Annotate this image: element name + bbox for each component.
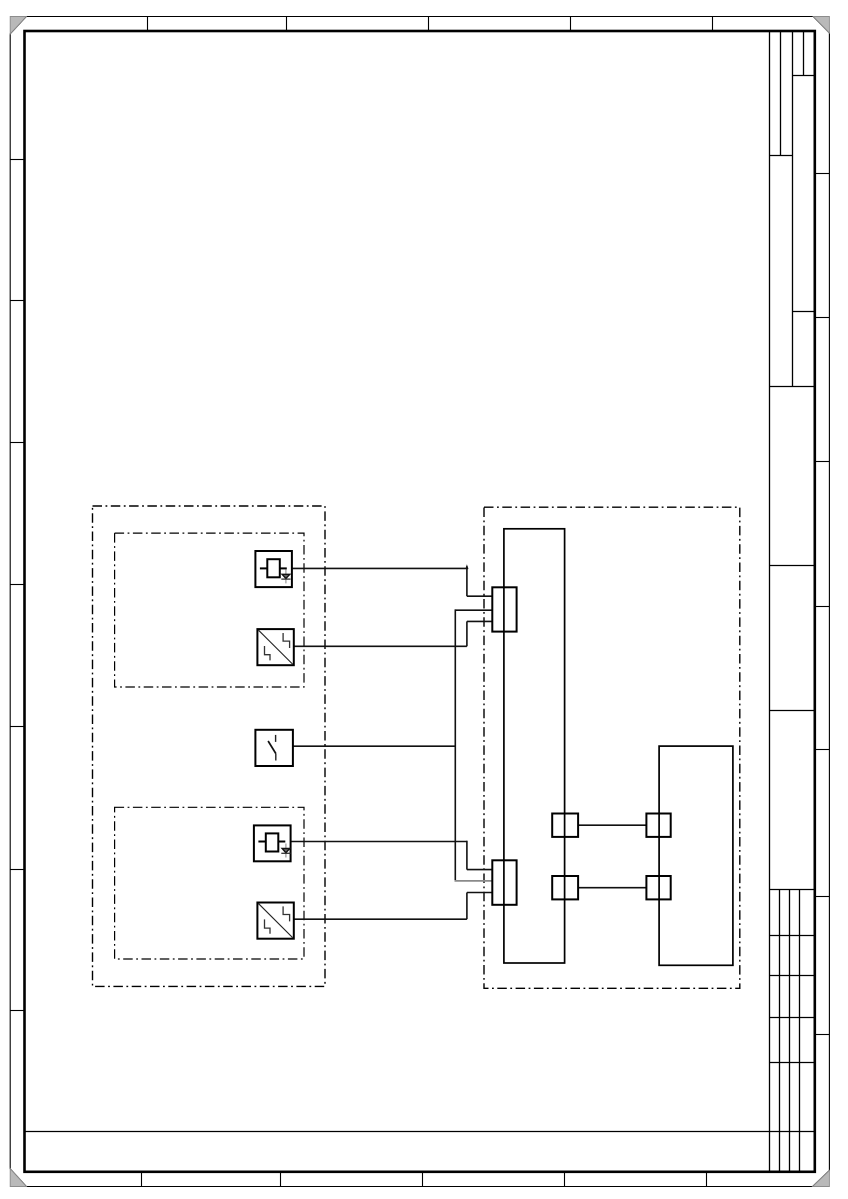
connector K1 right half: [646, 814, 670, 837]
corner fold triangle bottom-left: [10, 1169, 26, 1187]
enclosure boundary (field devices, dash-dot): [93, 506, 326, 986]
I/O module A2: [659, 746, 733, 965]
sensor group 1 boundary (dash-dot): [115, 533, 304, 687]
wire direction nub: [465, 564, 468, 569]
wire comp5 to terminal X2: [294, 893, 493, 920]
margin tick marks bottom edge: [142, 1172, 707, 1187]
margin tick marks left edge: [10, 160, 24, 1011]
margin tick marks top edge: [148, 17, 713, 32]
wire X2 pin2 (gray): [455, 880, 493, 882]
terminal block X2: [492, 860, 516, 905]
wire comp3 to bus: [293, 745, 455, 747]
margin tick marks right edge: [815, 174, 830, 1035]
connector K1 left half: [552, 814, 578, 837]
title block (rotated, right column): [770, 31, 815, 1172]
corner fold triangle top-left: [10, 17, 26, 34]
connector K2 left half: [552, 876, 578, 899]
wire comp4 to terminal X2: [291, 841, 493, 870]
isolator U2 (signal converter): [257, 903, 293, 939]
wire comp2 to terminal X1: [294, 621, 493, 646]
control cabinet boundary (dash-dot): [484, 507, 740, 988]
corner fold triangle top-right: [813, 17, 829, 34]
wire connector K2 pair: [578, 887, 646, 889]
controller module A1: [504, 529, 565, 963]
corner fold triangle bottom-right: [813, 1170, 830, 1186]
connector K2 right half: [646, 876, 670, 899]
wire bus vertical (X1 pin2 to X2 pin2): [455, 609, 492, 881]
sensor group 2 boundary (dash-dot): [115, 807, 304, 959]
solenoid B1 (coil with LED): [255, 551, 292, 587]
isolator U1 (signal converter): [257, 629, 293, 665]
footer separator line: [25, 1131, 815, 1133]
wire comp1 to terminal X1: [292, 566, 492, 596]
solenoid B2 (coil with LED): [254, 825, 291, 861]
switch S1 (contact): [255, 730, 293, 766]
revision table grid (bottom of title block): [770, 890, 815, 1172]
wire connector K1 pair: [578, 824, 646, 826]
terminal block X1: [492, 587, 516, 631]
